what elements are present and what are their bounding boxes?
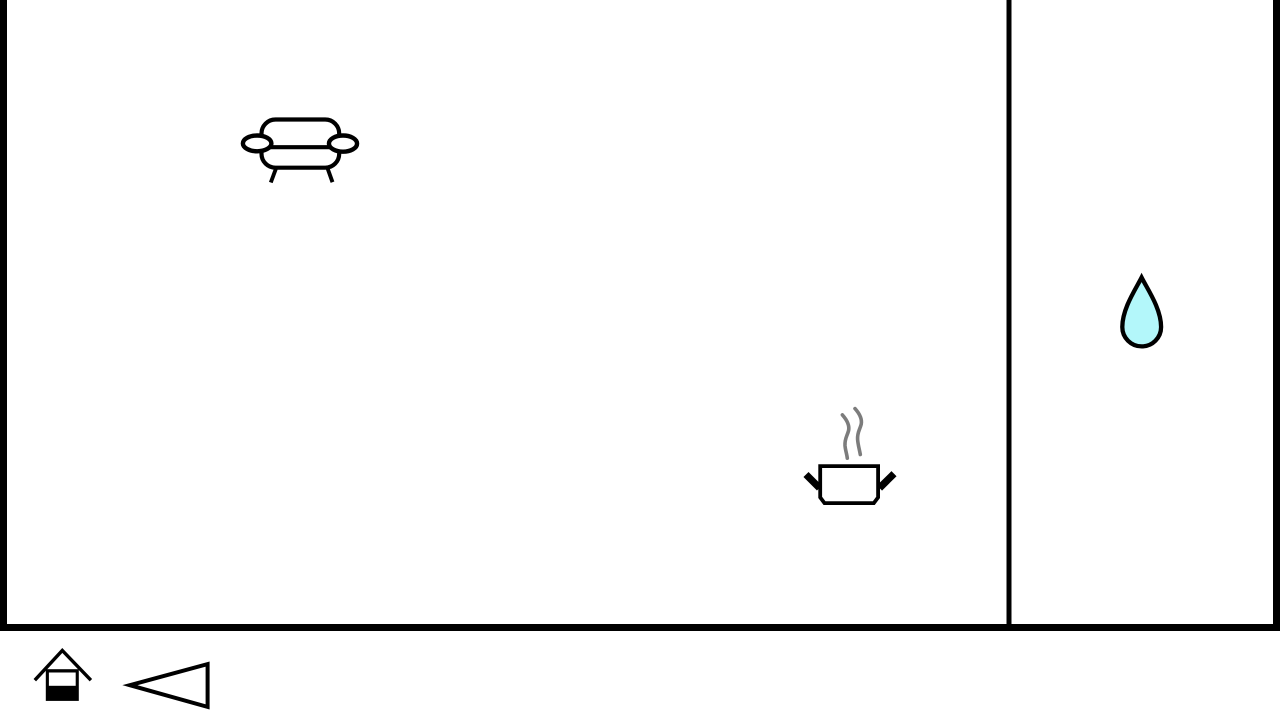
couch left leg	[271, 169, 276, 183]
couch body	[262, 120, 340, 168]
couch	[243, 120, 357, 183]
house roof	[35, 651, 91, 681]
house body	[46, 669, 79, 701]
home button icon	[35, 651, 91, 701]
divider wall between main room and right room	[1007, 0, 1012, 624]
couch right leg	[328, 169, 333, 182]
couch seat line	[257, 145, 343, 149]
back button (left-pointing triangle)	[130, 664, 208, 707]
couch left armrest	[243, 136, 272, 152]
pot body	[820, 466, 878, 503]
water drop	[1122, 278, 1161, 347]
pot left handle	[806, 475, 820, 489]
pot right handle	[880, 474, 895, 488]
couch right armrest	[329, 136, 357, 152]
steam line left	[842, 415, 848, 458]
steam line right	[855, 409, 861, 455]
cooking pot	[806, 409, 894, 504]
house window	[49, 673, 76, 686]
